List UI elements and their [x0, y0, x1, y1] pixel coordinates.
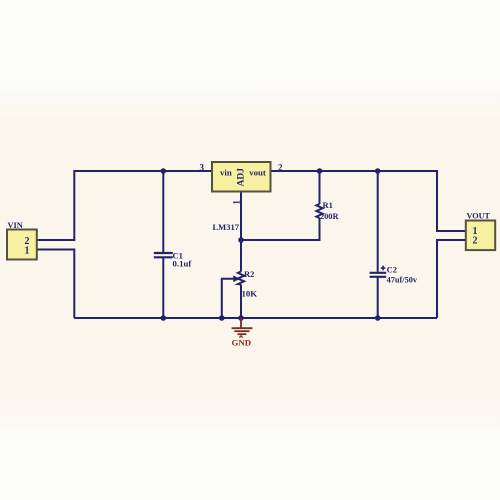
wire: VIN pin1 wire + left vertical lower [37, 250, 75, 319]
svg-text:1: 1 [25, 245, 30, 256]
wire: top rail right + right vertical upper + VOUT pin1 wire [271, 171, 466, 231]
junction dot: C1 top node [161, 168, 167, 174]
wire: C1 top branch [162, 171, 164, 252]
svg-text:47uf/50v: 47uf/50v [387, 276, 418, 285]
resistor R1 zigzag [316, 204, 322, 218]
wire: R2 top branch [240, 240, 242, 272]
capacitor C1 plates [154, 253, 173, 257]
svg-text:200R: 200R [320, 212, 339, 221]
wire: R1 top branch [319, 171, 321, 204]
wire: top rail left + left vertical upper + VIN pin2 wire [37, 171, 212, 240]
junction dot: ADJ node [238, 237, 244, 243]
potentiometer R2 wiper arrowhead [233, 276, 240, 283]
junction dot: wiper bottom node [219, 315, 225, 321]
svg-text:vout: vout [249, 168, 266, 178]
regulator U1 LM317 body [212, 162, 271, 192]
svg-text:2: 2 [473, 236, 478, 247]
wire: C2 top branch [377, 171, 379, 272]
svg-text:C2: C2 [387, 265, 397, 275]
svg-text:ADJ: ADJ [237, 168, 247, 187]
junction dot: C2 top node [375, 168, 381, 174]
connector VIN body [7, 230, 37, 260]
wire: LM317 ADJ stem [240, 192, 242, 241]
svg-text:VOUT: VOUT [467, 212, 491, 221]
junction dot: C2 bottom node [375, 315, 381, 321]
wire: R2 wiper arm to ground rail [222, 279, 235, 318]
wire: bottom ground rail [74, 317, 437, 319]
capacitor C2 polarity plus [381, 266, 386, 271]
wire: R2 bottom branch [240, 285, 242, 319]
potentiometer R2 zigzag [238, 272, 244, 285]
wire: C1 bottom branch [162, 258, 164, 319]
wire: ADJ node to R1 bottom [241, 218, 320, 240]
svg-text:R1: R1 [323, 200, 333, 210]
svg-text:2: 2 [278, 163, 283, 173]
junction dot: C1 bottom node [161, 315, 167, 321]
ground symbol bar 1 [232, 327, 253, 329]
svg-text:GND: GND [232, 337, 252, 347]
wire: VOUT pin2 wire + right vertical lower [437, 240, 466, 318]
capacitor C2 plates [370, 273, 387, 277]
junction dot: R1 top node [317, 168, 323, 174]
svg-text:R2: R2 [244, 269, 254, 279]
svg-text:0.1uf: 0.1uf [173, 259, 193, 269]
svg-text:vin: vin [220, 168, 232, 178]
connector VOUT body [466, 221, 495, 251]
ground symbol caret [239, 336, 242, 338]
svg-text:VIN: VIN [8, 221, 23, 230]
ground symbol stem [240, 318, 242, 328]
svg-text:10K: 10K [242, 289, 258, 299]
svg-text:3: 3 [200, 163, 205, 173]
wire: C2 bottom branch [377, 277, 379, 318]
svg-text:1: 1 [232, 200, 242, 205]
junction dot: R2 bottom node [238, 315, 244, 321]
svg-text:LM317: LM317 [213, 222, 240, 232]
ground symbol bar 3 [238, 333, 247, 335]
ground symbol bar 2 [234, 330, 249, 332]
